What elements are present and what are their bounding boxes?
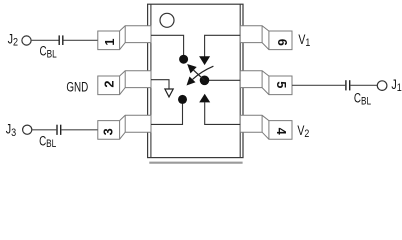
- label CBL bottom-left: [39, 133, 57, 151]
- label GND: [66, 79, 88, 95]
- switch arm arrowhead: [187, 64, 197, 73]
- connector J1: [377, 81, 387, 91]
- package inner right edge: [239, 4, 241, 157]
- connector J3: [23, 125, 32, 134]
- label J1: [391, 77, 402, 95]
- pin 4 number: [274, 128, 289, 136]
- label CBL top-left: [40, 43, 58, 61]
- svg-text:BL: BL: [47, 48, 57, 61]
- svg-text:BL: BL: [46, 138, 56, 151]
- pin 6 number: [275, 39, 290, 46]
- connector J2: [22, 36, 31, 45]
- wire pin1 to RF1 node: [151, 35, 184, 55]
- node RF1 dot: [179, 55, 188, 64]
- wire pin5 to RFC node: [209, 79, 240, 81]
- wire CBL to pin3: [61, 129, 97, 131]
- svg-text:5: 5: [274, 81, 289, 88]
- wire pin2 to internal ground: [151, 80, 169, 89]
- wire J2 to CBL: [31, 39, 59, 41]
- pin 2 lead: [98, 71, 151, 95]
- wire J3 to CBL: [32, 129, 57, 131]
- svg-text:GND: GND: [66, 79, 88, 95]
- svg-text:4: 4: [274, 128, 289, 136]
- svg-text:BL: BL: [361, 95, 371, 108]
- capacitor CBL top-left: [59, 35, 63, 45]
- capacitor CBL bottom-left: [57, 125, 61, 135]
- capacitor CBL right: [346, 80, 350, 90]
- switch toggle arc: [193, 66, 214, 79]
- svg-text:3: 3: [11, 127, 16, 139]
- svg-text:2: 2: [304, 128, 309, 140]
- wire pin4 V2 control: [205, 102, 241, 124]
- label V2: [297, 123, 309, 141]
- svg-text:2: 2: [13, 36, 18, 48]
- wire pin3 to RF2 node: [151, 104, 183, 125]
- V1 control arrowhead: [199, 56, 210, 65]
- toggle arc arrowhead: [187, 77, 196, 86]
- svg-text:1: 1: [102, 38, 117, 45]
- wire CBL to pin1: [63, 39, 97, 41]
- pin 6 lead: [240, 26, 292, 50]
- svg-text:6: 6: [275, 39, 290, 46]
- svg-text:3: 3: [101, 128, 116, 135]
- pin 3 number: [101, 128, 116, 135]
- pin 5 number: [274, 81, 289, 88]
- node RFC dot: [200, 76, 210, 86]
- V2 control arrowhead: [199, 94, 210, 103]
- pin 1 lead: [98, 26, 151, 50]
- pin 1 number: [102, 38, 117, 45]
- IC package U1 body: [148, 4, 243, 157]
- pin 4 lead: [240, 115, 292, 139]
- pin-1 indicator circle: [160, 13, 174, 27]
- switch arm shaft: [194, 70, 205, 80]
- pin 3 lead: [98, 115, 151, 139]
- label J3: [6, 121, 17, 139]
- label V1: [298, 32, 310, 50]
- label J2: [8, 31, 19, 48]
- svg-text:1: 1: [397, 82, 402, 94]
- wire pin5 to CBL right: [292, 84, 345, 86]
- label CBL right: [354, 90, 372, 108]
- node RF2 dot: [178, 95, 187, 104]
- package inner left edge: [150, 4, 152, 157]
- wire CBL to J1: [350, 84, 378, 86]
- svg-text:2: 2: [101, 81, 116, 88]
- svg-text:1: 1: [305, 37, 310, 49]
- pin 2 number: [101, 81, 116, 88]
- wire pin6 V1 control: [205, 35, 241, 56]
- package shadow (bottom gray line): [149, 162, 242, 164]
- pin 5 lead: [240, 71, 292, 95]
- internal ground open arrow: [165, 89, 173, 97]
